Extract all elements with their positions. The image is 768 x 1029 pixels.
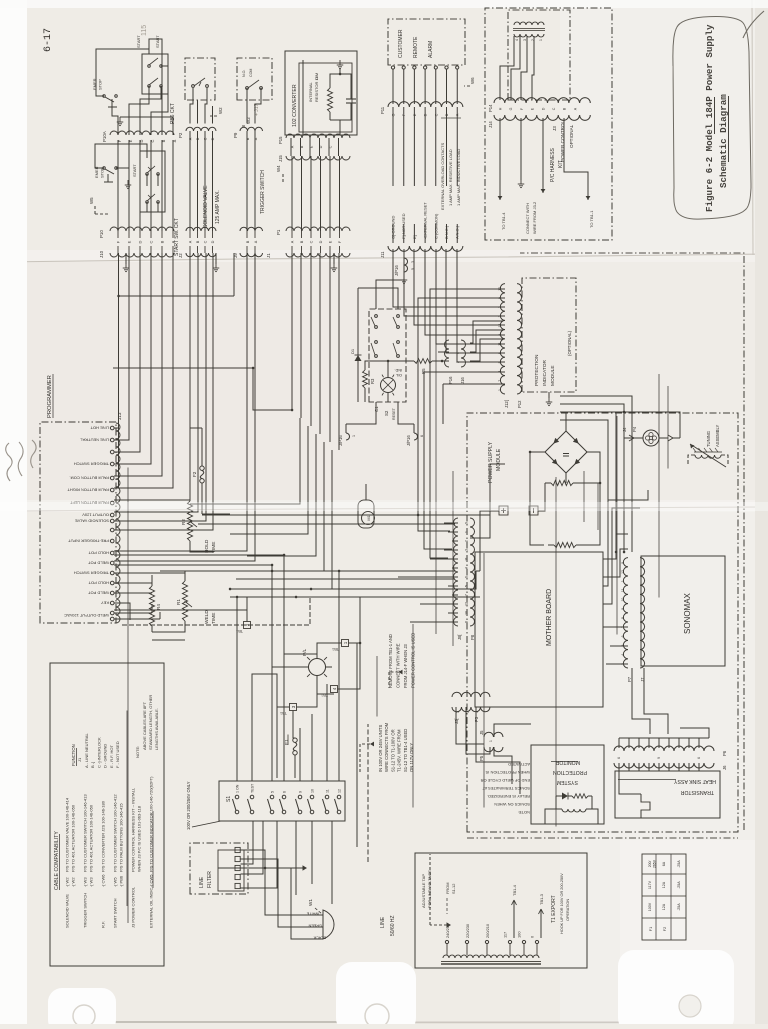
svg-text:D: D <box>319 240 323 243</box>
svg-text:TO TB1-1: TO TB1-1 <box>589 210 594 228</box>
svg-text:SONOMAX: SONOMAX <box>683 592 692 634</box>
overload lamp O/L IND <box>381 368 403 395</box>
svg-text:WHEN J3 P/C IS USED 101-063: WHEN J3 P/C IS USED 101-063-118 <box>137 805 142 872</box>
svg-text:P5: P5 <box>479 755 484 761</box>
label adjustable tap <box>421 870 432 908</box>
svg-text:J16: J16 <box>460 377 465 384</box>
svg-text:C: C <box>204 137 208 140</box>
arrow TB1-3 tap <box>539 893 545 938</box>
svg-text:INTERNAL: INTERNAL <box>308 81 313 102</box>
svg-text:EXTERNAL OVERLOAD CONTACTS: EXTERNAL OVERLOAD CONTACTS <box>440 143 445 210</box>
svg-text:E - R.F. HOT: E - R.F. HOT <box>109 745 114 768</box>
svg-text:SOLENOID VALVE: SOLENOID VALVE <box>75 518 109 523</box>
svg-text:D: D <box>541 107 545 110</box>
svg-text:1: 1 <box>352 435 356 437</box>
svg-text:B: B <box>160 240 165 243</box>
svg-text:D1: D1 <box>350 348 355 354</box>
svg-text:115: 115 <box>141 25 148 36</box>
svg-text:S1-12 TO TB1-4 USED: S1-12 TO TB1-4 USED <box>403 729 408 772</box>
white margin top edge <box>0 0 768 8</box>
svg-text:1 AMP MAX. RESISTIVE LOAD: 1 AMP MAX. RESISTIVE LOAD <box>448 149 453 206</box>
svg-text:FOR LINE VOLTAGE: FOR LINE VOLTAGE <box>427 870 432 908</box>
svg-text:E: E <box>127 240 132 243</box>
converter wires <box>303 60 351 135</box>
converter inner box <box>299 63 352 132</box>
cable W2 label <box>210 107 768 801</box>
mother board box <box>475 552 603 707</box>
svg-text:TRIGGER SWITCH: TRIGGER SWITCH <box>83 893 88 928</box>
label trigger switch <box>260 170 768 759</box>
binder tab bottom center <box>336 962 416 1029</box>
label solenoid valve 125 amp <box>203 185 768 816</box>
psm terminal squares <box>499 506 538 515</box>
wires S1 to line filter and T1 <box>237 555 339 904</box>
svg-text:LINE HOT: LINE HOT <box>90 425 109 430</box>
svg-text:6: 6 <box>617 757 621 759</box>
diode D1 <box>350 348 362 369</box>
svg-text:O/L: O/L <box>396 373 402 377</box>
svg-text:P10: P10 <box>99 230 104 238</box>
svg-text:J3: J3 <box>552 126 557 131</box>
wire alarm bus down <box>230 571 455 597</box>
svg-text:1: 1 <box>456 711 460 713</box>
svg-text:7: 7 <box>498 380 502 382</box>
svg-text:P16: P16 <box>448 376 453 384</box>
cable W5 bracket <box>89 197 768 930</box>
svg-text:EXTERNAL OIL INDIC.: EXTERNAL OIL INDIC. <box>149 887 154 929</box>
svg-text:11: 11 <box>498 342 502 346</box>
svg-text:6: 6 <box>498 334 502 336</box>
wire TB1-1 to T1 long run <box>352 643 368 862</box>
svg-text:A: A <box>189 137 193 140</box>
svg-text:P/S TO CUSTOMER VALVE 100-146: P/S TO CUSTOMER VALVE 100-146-414 <box>65 797 70 872</box>
connector J8 strip <box>454 518 459 626</box>
cable W4 label <box>276 165 768 743</box>
cable table function legend <box>71 733 120 768</box>
psm wires upper <box>455 451 601 597</box>
wires alarm to P11 <box>393 69 457 104</box>
connector P12 strip <box>517 284 522 394</box>
svg-text:2: 2 <box>456 361 460 363</box>
fan motor M1 <box>358 484 375 528</box>
svg-text:WELD OUTPUT 120VAC: WELD OUTPUT 120VAC <box>64 613 109 618</box>
svg-text:B: B <box>300 240 304 243</box>
svg-text:ON 117V ONLY: ON 117V ONLY <box>409 743 414 772</box>
svg-text:Schematic Diagram: Schematic Diagram <box>718 94 729 188</box>
fold crease middle overlay <box>0 502 768 511</box>
svg-text:INDICATOR: INDICATOR <box>542 360 548 386</box>
svg-text:P10A: P10A <box>102 131 107 142</box>
svg-text:B -]: B -] <box>90 762 95 768</box>
svg-text:P7: P7 <box>627 676 632 682</box>
line filter terminals <box>218 847 244 891</box>
programmer box <box>40 422 116 623</box>
line filter box <box>190 843 248 894</box>
svg-text:100V OR 200/256V ONLY: 100V OR 200/256V ONLY <box>186 781 191 830</box>
svg-text:TEST: TEST <box>251 783 255 793</box>
svg-text:4: 4 <box>515 39 519 41</box>
ground start ckt 2 <box>127 180 129 185</box>
connector J13 strip <box>116 423 120 623</box>
svg-text:D: D <box>139 139 144 142</box>
label line 50/60 hz <box>380 915 396 936</box>
converter capacitor <box>346 88 356 114</box>
svg-text:STOP: STOP <box>98 79 103 90</box>
wire pot connections <box>152 490 214 632</box>
note sonics text <box>481 762 530 815</box>
wires start ckt 2 <box>95 144 158 212</box>
svg-text:POWER CONTROL IS USED: POWER CONTROL IS USED <box>411 633 416 688</box>
svg-text:WHEN PROTECTION IS: WHEN PROTECTION IS <box>485 770 530 775</box>
wire long vertical buses mid page <box>119 253 456 597</box>
svg-text:D: D <box>138 240 143 243</box>
svg-text:NOTE:: NOTE: <box>135 746 140 758</box>
svg-text:A: A <box>291 240 295 243</box>
label external overload contacts <box>440 118 461 210</box>
labels J14 P14 <box>488 104 493 128</box>
svg-text:SOLENOID VALVE: SOLENOID VALVE <box>203 185 209 228</box>
J11 pin labels <box>391 202 460 239</box>
svg-text:P12: P12 <box>517 400 522 408</box>
customer remote alarm box <box>388 19 768 590</box>
svg-text:1: 1 <box>621 580 625 582</box>
transformer T1 taps <box>445 923 490 955</box>
svg-text:W6: W6 <box>470 77 475 84</box>
svg-text:WIRE CONNECTS FROM: WIRE CONNECTS FROM <box>384 722 389 772</box>
svg-text:1: 1 <box>498 389 502 391</box>
svg-text:6: 6 <box>697 757 701 759</box>
protection indicator module box <box>522 278 576 392</box>
svg-text:200/: 200/ <box>648 861 652 868</box>
svg-text:TIME: TIME <box>211 613 217 624</box>
svg-text:STOP: STOP <box>100 167 105 178</box>
emergency stop switch 2 <box>94 166 117 182</box>
wire bus mother board right to protection <box>560 396 632 552</box>
wires J6 P6 <box>619 738 709 794</box>
connector P10A strip <box>110 131 174 135</box>
svg-text:TB1: TB1 <box>332 647 339 651</box>
wires J2 to P2 and relay <box>190 88 213 231</box>
svg-text:TRANSISTOR: TRANSISTOR <box>680 789 714 795</box>
wires P7 left <box>603 627 668 728</box>
start switch circuit 1 box <box>136 35 168 94</box>
svg-text:3: 3 <box>498 315 502 317</box>
svg-text:R1: R1 <box>176 599 181 605</box>
labels C1 S2 reset <box>374 406 617 635</box>
wire staircase P1 bundle into mid area <box>113 368 332 589</box>
junction dots on buses <box>117 295 293 412</box>
svg-text:D: D <box>211 137 215 140</box>
svg-text:D - GROUND: D - GROUND <box>103 744 108 768</box>
svg-text:B: B <box>196 240 200 243</box>
svg-text:P4: P4 <box>632 426 637 432</box>
resistor R3 <box>363 364 375 394</box>
svg-text:117V: 117V <box>648 880 652 889</box>
svg-text:J6: J6 <box>722 765 727 770</box>
svg-text:SONICS TERMINATES AT: SONICS TERMINATES AT <box>482 786 530 791</box>
svg-text:PB6 CKT: PB6 CKT <box>170 103 176 124</box>
svg-text:F2: F2 <box>192 471 197 477</box>
svg-text:P11: P11 <box>380 106 385 114</box>
wire bus J8 to J12 <box>418 289 505 558</box>
svg-text:100V: 100V <box>648 902 652 911</box>
svg-text:C -]-INTERLOCK: C -]-INTERLOCK <box>96 737 101 768</box>
connector J16 strip <box>461 340 466 367</box>
svg-text:TUNING: TUNING <box>706 431 711 447</box>
trigger relay box <box>237 58 272 100</box>
transformer T1 winding <box>441 955 541 964</box>
svg-text:12: 12 <box>338 789 342 793</box>
scan bottom edge shadow <box>60 1021 630 1023</box>
label system protection monitor <box>551 759 587 785</box>
transistor heat sink assy box <box>615 771 720 818</box>
wires J14 left with arrows <box>498 118 591 200</box>
svg-text:BLACK: BLACK <box>313 936 326 940</box>
svg-text:B: B <box>196 137 200 140</box>
svg-text:-[ W5: -[ W5 <box>113 877 118 887</box>
ground J2 side <box>213 253 219 272</box>
fold crease horizontal upper <box>0 250 768 262</box>
ground J10 side <box>123 253 129 272</box>
svg-text:.25A: .25A <box>677 860 681 868</box>
terminal TB1-4 <box>321 686 337 698</box>
svg-text:KEY: KEY <box>101 600 109 605</box>
connector J/P16 stub 6 <box>406 424 424 446</box>
svg-text:WELD POT: WELD POT <box>88 560 109 565</box>
svg-text:265V: 265V <box>653 859 657 868</box>
svg-text:S1-12 TO T1-100V OR: S1-12 TO T1-100V OR <box>390 729 395 772</box>
svg-text:POWER CONTROL HARNESS KIT -- I: POWER CONTROL HARNESS KIT -- INSTALL <box>131 787 136 872</box>
svg-text:A: A <box>254 240 258 243</box>
svg-text:E: E <box>128 139 133 142</box>
wires J8 pins up long <box>398 559 454 622</box>
svg-text:R3: R3 <box>370 378 375 384</box>
svg-text:PRE-TRIGGER INPUT: PRE-TRIGGER INPUT <box>68 538 109 543</box>
svg-text:OPERATION: OPERATION <box>566 899 570 921</box>
svg-text:6: 6 <box>283 791 287 793</box>
svg-text:MODULE: MODULE <box>496 448 502 471</box>
svg-text:FROM J14-F WHEN J3: FROM J14-F WHEN J3 <box>403 644 408 688</box>
resistor R4 <box>149 580 161 632</box>
svg-text:LINE: LINE <box>380 916 386 928</box>
svg-text:4: 4 <box>621 654 625 656</box>
svg-text:9: 9 <box>621 562 625 564</box>
svg-text:9: 9 <box>657 757 661 759</box>
svg-text:IN 100V OR 245V UNITS: IN 100V OR 245V UNITS <box>378 725 383 772</box>
svg-text:6: 6 <box>420 435 424 437</box>
svg-text:2: 2 <box>498 306 502 308</box>
switch S1 contacts <box>233 783 342 814</box>
note 100V wiring <box>360 722 414 772</box>
ground J1 side <box>331 253 337 272</box>
svg-text:125 AMP MAX.: 125 AMP MAX. <box>215 190 221 224</box>
svg-text:FUNCTION: FUNCTION <box>71 744 76 766</box>
wires S2 block <box>346 280 503 424</box>
svg-text:LINE: LINE <box>199 876 205 888</box>
wire bus J1 trigger lines <box>119 253 235 488</box>
wire line white <box>241 850 324 916</box>
PB6 relay box <box>185 58 215 100</box>
connector pair P1 J1 <box>266 227 350 258</box>
ground start ckt 1 <box>119 117 121 122</box>
svg-text:HOLD POT: HOLD POT <box>88 580 109 585</box>
svg-text:6: 6 <box>465 576 469 578</box>
P7 pin numbers <box>621 562 625 665</box>
svg-text:ASSEMBLY: ASSEMBLY <box>715 425 720 447</box>
svg-text:C: C <box>149 240 154 243</box>
svg-text:J14: J14 <box>488 121 493 128</box>
svg-text:MONITOR: MONITOR <box>555 759 580 765</box>
svg-text:S1-12: S1-12 <box>451 884 456 894</box>
connector P16 strip <box>445 340 450 367</box>
svg-text:5: 5 <box>465 585 469 587</box>
cable table rows <box>65 776 154 928</box>
wire bus J11 to J12 staircase <box>393 249 505 362</box>
svg-text:11: 11 <box>465 557 469 561</box>
connector J14 strip <box>494 115 590 120</box>
wires lamp and terminal connections <box>277 597 360 778</box>
binder tab bottom right <box>618 950 734 1029</box>
svg-text:J13: J13 <box>117 412 122 420</box>
svg-text:RESET: RESET <box>392 407 396 420</box>
svg-text:OPTIONAL: OPTIONAL <box>569 124 574 148</box>
svg-text:PROTECTION: PROTECTION <box>553 769 587 775</box>
svg-text:6A: 6A <box>662 861 666 866</box>
resistor in psm 1 <box>545 480 585 485</box>
arrow at line filter wire <box>218 865 307 870</box>
svg-text:B: B <box>246 240 250 243</box>
fuse E1 <box>284 735 297 756</box>
cable compatability table box <box>50 663 164 966</box>
label power supply module <box>488 441 598 530</box>
svg-text:J15: J15 <box>278 155 283 162</box>
wire line black <box>243 868 326 940</box>
svg-text:102 CONVERTER: 102 CONVERTER <box>292 84 298 127</box>
terminal TB1-2 <box>236 597 250 633</box>
converter resistor <box>327 80 332 120</box>
labels J8 P8 <box>457 634 475 640</box>
svg-text:START: START <box>132 164 137 177</box>
label 100V only <box>186 781 221 830</box>
svg-text:RELAY IS ENERGIZED.: RELAY IS ENERGIZED. <box>487 794 530 799</box>
heat sink zigzag bracket <box>641 794 650 818</box>
fan J4 P4 <box>586 411 680 446</box>
connector pair P10 J10 <box>99 227 176 258</box>
svg-text:50/60 HZ: 50/60 HZ <box>390 915 396 936</box>
note remove from TB1 <box>388 633 416 688</box>
connector pair J2 <box>178 137 216 258</box>
svg-text:6-17: 6-17 <box>43 28 54 52</box>
svg-text:J3 POWER CONTROL: J3 POWER CONTROL <box>131 886 136 928</box>
svg-text:E: E <box>329 240 333 243</box>
wires J11 to P11 <box>393 107 457 243</box>
connector P9 strip <box>240 127 263 131</box>
svg-text:ACTIVATED: ACTIVATED <box>508 762 530 767</box>
svg-text:100: 100 <box>517 931 522 938</box>
svg-text:M1: M1 <box>367 515 371 520</box>
svg-text:STANDARD LENGTH, OTHER: STANDARD LENGTH, OTHER <box>148 695 153 750</box>
connector P15 strip <box>286 134 350 138</box>
svg-text:5: 5 <box>498 361 502 363</box>
svg-text:10: 10 <box>311 789 315 793</box>
svg-text:P/S TO 401 ACTUATOR 100-146-0: P/S TO 401 ACTUATOR 100-146-050 <box>89 804 94 872</box>
connector pair J9 <box>233 137 263 258</box>
svg-text:HOLD POT: HOLD POT <box>88 550 109 555</box>
svg-text:MODULE: MODULE <box>550 365 556 386</box>
svg-text:12: 12 <box>621 570 625 574</box>
label mother board <box>453 471 553 646</box>
svg-text:B: B <box>161 139 166 142</box>
binder tab bottom left <box>48 988 116 1029</box>
svg-text:P/C HARNESS: P/C HARNESS <box>550 147 556 182</box>
wires P14 to J3 transformer <box>500 36 534 100</box>
resistor in psm 2 <box>548 542 584 547</box>
svg-text:CONNECT WITH WIRE: CONNECT WITH WIRE <box>396 643 401 688</box>
svg-text:5: 5 <box>271 791 275 793</box>
svg-text:3: 3 <box>465 549 469 551</box>
svg-text:W1: W1 <box>308 899 313 906</box>
connector P7 strip <box>623 558 628 668</box>
svg-text:P/S TO PALM BUTTONS 100-146-4: P/S TO PALM BUTTONS 100-146-415 <box>119 803 124 872</box>
J14 P14 pin letters <box>499 107 578 110</box>
converter ground <box>337 60 343 74</box>
wires J3 J5 left <box>456 707 531 794</box>
paper shading bottom right corner <box>620 840 768 1024</box>
svg-text:T1-245V. WIRE FROM: T1-245V. WIRE FROM <box>397 729 402 772</box>
svg-text:ALARM: ALARM <box>428 41 434 58</box>
connector P11 strip <box>388 102 463 107</box>
svg-text:HOOK UP FOR 100V OR 200-250V: HOOK UP FOR 100V OR 200-250V <box>560 873 564 934</box>
J3 transformer <box>513 22 545 41</box>
svg-text:J1: J1 <box>266 253 271 258</box>
pilot lamp PL <box>302 648 377 716</box>
svg-text:P2: P2 <box>178 132 183 138</box>
svg-text:P/S TO CUSTOMER SWITCH 100-14: P/S TO CUSTOMER SWITCH 100-146-412 <box>113 794 118 872</box>
connector J13 pins and labels <box>67 425 114 605</box>
svg-text:12A: 12A <box>662 903 666 910</box>
svg-text:J/P16: J/P16 <box>338 435 343 446</box>
P15 J15 pin letters <box>291 145 333 148</box>
svg-text:11: 11 <box>326 789 330 793</box>
svg-text:END OF WELD CYCLE OR: END OF WELD CYCLE OR <box>481 778 530 783</box>
svg-text:P/L: P/L <box>302 648 308 656</box>
system protection monitor box <box>531 745 604 824</box>
svg-text:SONICS ON WHEN: SONICS ON WHEN <box>494 802 530 807</box>
svg-text:TRIGGER SWITCH: TRIGGER SWITCH <box>260 170 266 214</box>
wires P10A to start ckt 1 <box>96 39 173 135</box>
svg-text:9: 9 <box>621 608 625 610</box>
connector J11 strip <box>388 246 463 251</box>
svg-text:START SWITCH: START SWITCH <box>113 898 118 928</box>
connector J12 strip <box>500 284 505 394</box>
connector J/P16 stub with ground <box>394 258 415 284</box>
svg-text:117: 117 <box>503 932 508 938</box>
svg-text:WELD POT: WELD POT <box>88 590 109 595</box>
svg-text:J/P16: J/P16 <box>394 265 399 276</box>
svg-text:START SW. CKT: START SW. CKT <box>174 218 180 256</box>
svg-text:1: 1 <box>489 740 493 742</box>
svg-text:7: 7 <box>465 594 469 596</box>
svg-text:220/230: 220/230 <box>465 923 470 938</box>
svg-text:9: 9 <box>299 791 303 793</box>
svg-text:-[ W2: -[ W2 <box>71 877 76 887</box>
overload reset S2 box <box>369 309 406 402</box>
converter internal resistor box <box>285 51 357 135</box>
cable W6 label <box>464 77 768 549</box>
wire mid horizontal links <box>114 504 490 640</box>
svg-text:A - LINE NEUTRAL: A - LINE NEUTRAL <box>84 733 89 768</box>
P11 pin letters <box>392 113 460 116</box>
